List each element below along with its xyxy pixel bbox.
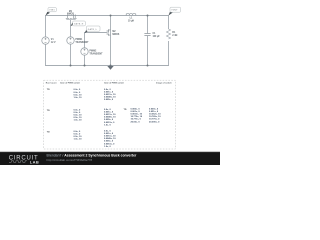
svg-text:L1: L1: [130, 18, 133, 20]
svg-text:V1: V1: [51, 39, 55, 41]
PWM source V3: [81, 48, 103, 56]
svg-text:1.0s, 10: 1.0s, 10: [74, 97, 83, 99]
wire left vertical (V1 branch): [45, 16, 47, 66]
svg-text:10 µH: 10 µH: [128, 21, 135, 23]
svg-text:GATE_H: GATE_H: [74, 23, 84, 26]
wire M2 branch vertical drain/source: [110, 16, 112, 66]
svg-text:NMOS: NMOS: [112, 34, 119, 36]
transistor M1 NMOS high-side: [66, 11, 77, 20]
table entry 1 time-domain row: [47, 89, 117, 101]
svg-text:TD: TD: [47, 89, 50, 91]
svg-text:TRANSIENT: TRANSIENT: [75, 41, 89, 44]
svg-text:2.4Ω: 2.4Ω: [172, 34, 177, 37]
svg-text:100 µF: 100 µF: [153, 36, 161, 38]
svg-text:http://circuitlab.com/c/f73f4b: http://circuitlab.com/c/f73f4bd9e778: [47, 158, 93, 162]
svg-text:VOUT: VOUT: [171, 10, 178, 12]
svg-text:Image of switch: Image of switch: [156, 81, 172, 84]
svg-text:TRANSIENT: TRANSIENT: [89, 53, 103, 56]
svg-text:0.0049s, 10: 0.0049s, 10: [104, 95, 116, 98]
svg-text:0.005s, 0: 0.005s, 0: [104, 99, 114, 101]
svg-text:PWM2: PWM2: [89, 51, 97, 53]
svg-text:Run Count: Run Count: [46, 81, 57, 84]
table entry 2 time-domain row: [47, 109, 117, 126]
table entry 4 time-domain row: [47, 131, 117, 148]
svg-text:NMOS: NMOS: [67, 13, 74, 15]
voltage source V1 12V: [42, 37, 56, 44]
wire right vertical (R1 branch top and bottom leads): [168, 16, 170, 66]
svg-text:C1: C1: [153, 33, 157, 35]
net flag at M1 gate: [71, 21, 86, 26]
wire M1 gate down to V2 and V2 to bottom rail: [70, 20, 72, 66]
capacitor C1: [144, 33, 160, 38]
svg-text:Brendan7 / Assessment 2 Synchr: Brendan7 / Assessment 2 Synchronous Buck…: [47, 153, 137, 157]
svg-text:0.0049s, 10: 0.0049s, 10: [104, 137, 116, 140]
table entry 3 time-domain row (right column): [124, 109, 162, 124]
footer logo waveform: [9, 161, 27, 163]
svg-text:LAB: LAB: [30, 159, 39, 164]
svg-text:TD: TD: [124, 109, 127, 111]
simulation table dashed border: [44, 80, 176, 149]
svg-text:1.0s, 0: 1.0s, 0: [104, 124, 111, 126]
svg-text:M2: M2: [112, 31, 116, 33]
svg-text:GATE_L: GATE_L: [88, 28, 98, 31]
svg-text:20.000s, 0: 20.000s, 0: [149, 121, 160, 123]
PWM source V2: [67, 37, 89, 44]
ground: [107, 66, 113, 70]
svg-text:0.0049s, 10: 0.0049s, 10: [104, 116, 116, 119]
net flag at M2 gate: [85, 26, 101, 33]
footer bar: [0, 152, 220, 165]
resistor R1: [166, 29, 177, 39]
wire top rail VIN to VOUT corner: [45, 15, 169, 17]
net flag VOUT: [169, 7, 181, 15]
svg-text:1.0s, 0: 1.0s, 0: [104, 146, 111, 148]
wire M2 gate across to V3 and V3 to bottom rail: [85, 33, 107, 66]
svg-text:R1: R1: [172, 32, 176, 34]
svg-text:1.0s, 10: 1.0s, 10: [74, 120, 83, 122]
svg-text:20.00s, 0: 20.00s, 0: [131, 121, 141, 123]
svg-text:PWM1: PWM1: [75, 39, 83, 41]
wire bottom rail: [45, 65, 169, 67]
svg-text:VIN1: VIN1: [49, 9, 55, 11]
svg-text:12 V: 12 V: [51, 42, 56, 44]
inductor L1: [126, 13, 136, 22]
junction node dots: [70, 15, 149, 67]
svg-text:Gate of PWM switch: Gate of PWM switch: [60, 81, 81, 84]
transistor M2 NMOS low-side: [107, 29, 120, 36]
svg-text:Gate of PWM switch: Gate of PWM switch: [104, 81, 125, 84]
svg-text:1.0s, 10: 1.0s, 10: [74, 139, 83, 141]
svg-text:TD: TD: [47, 132, 50, 134]
svg-text:TD: TD: [47, 110, 50, 112]
table header row: [46, 81, 173, 84]
wire C1 branch vertical: [147, 16, 149, 66]
net flag VIN: [46, 8, 57, 16]
